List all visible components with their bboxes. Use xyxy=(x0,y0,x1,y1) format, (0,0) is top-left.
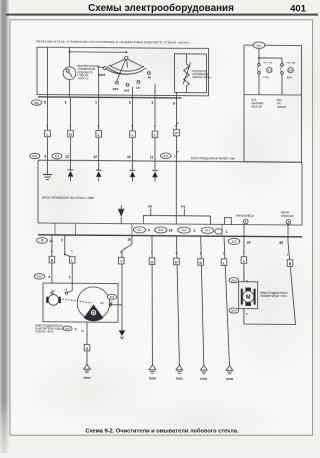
svg-text:G601: G601 xyxy=(83,376,91,380)
svg-text:В18: В18 xyxy=(33,154,38,158)
ground G1 xyxy=(149,365,157,380)
svg-text:РАБОТЫ <РЕЖ>: РАБОТЫ <РЕЖ> xyxy=(193,76,212,79)
rotary switch pivot xyxy=(125,56,128,59)
connector oval B14 xyxy=(107,294,116,299)
label: wiper motor name xyxy=(35,324,69,334)
node: junction washer feed xyxy=(69,51,71,53)
svg-text:В14: В14 xyxy=(110,295,115,299)
code box v2 xyxy=(69,257,75,264)
block connector strip xyxy=(38,223,302,225)
wire: link to rotary pivot xyxy=(70,51,127,53)
svg-text:WINDOW: WINDOW xyxy=(281,214,294,218)
svg-text:L: L xyxy=(243,259,245,263)
svg-text:В16: В16 xyxy=(164,154,169,158)
svg-text:<9ХХ-1>: <9ХХ-1> xyxy=(78,76,89,80)
wiper motor connector oval B06 xyxy=(34,274,44,279)
svg-text:БАТ: БАТ xyxy=(257,44,262,48)
label: washer motor name xyxy=(260,291,288,298)
wire w1 xyxy=(47,97,49,160)
svg-text:Схемы электрооборудования: Схемы электрооборудования xyxy=(88,3,234,14)
strip connector oval B13 pin 9 xyxy=(133,227,145,233)
wire: branch to fuse 2 xyxy=(259,57,282,59)
rotary switch ray left xyxy=(110,59,125,66)
code box v1 xyxy=(49,256,55,263)
strip divider ticks xyxy=(54,223,56,235)
AS contact stub xyxy=(110,304,122,306)
rotary switch wiper arm to OFF xyxy=(117,60,126,81)
switch box S1 (column switch) xyxy=(37,47,209,96)
wire v9 rear washer feed xyxy=(244,224,296,325)
svg-text:1: 1 xyxy=(95,101,97,105)
svg-text:G501: G501 xyxy=(200,377,208,381)
code box v9 xyxy=(287,260,293,267)
code box w3 xyxy=(96,131,102,138)
contact LO xyxy=(137,81,140,84)
svg-text:В04: В04 xyxy=(232,278,237,282)
wire w5 xyxy=(154,98,156,161)
svg-text:12: 12 xyxy=(93,155,97,159)
svg-text:В: В xyxy=(81,329,83,333)
wire v3 to wiper AS with jog xyxy=(122,235,132,330)
resistor R1 (interval regulator) xyxy=(186,54,188,64)
svg-text:LO: LO xyxy=(136,86,141,90)
svg-text:РВУ 20А: РВУ 20А xyxy=(287,62,296,65)
svg-text:20A: 20A xyxy=(287,75,292,79)
node: fuse feed junction xyxy=(258,57,260,59)
svg-text:M: M xyxy=(246,295,251,301)
wire v2 to wiper HI xyxy=(65,235,72,290)
svg-text:14: 14 xyxy=(49,239,53,243)
svg-text:MOTOR: MOTOR xyxy=(252,104,262,108)
svg-text:1: 1 xyxy=(226,230,228,234)
park cam plate xyxy=(77,287,110,320)
svg-text:В19: В19 xyxy=(232,240,237,244)
label: washer motor circuit xyxy=(252,98,264,109)
svg-text:L: L xyxy=(154,133,156,137)
svg-text:L: L xyxy=(46,133,48,137)
node: junction pivot xyxy=(125,51,127,53)
svg-text:6: 6 xyxy=(44,155,46,159)
wire: internal drop a xyxy=(98,67,100,97)
svg-text:HI: HI xyxy=(148,75,151,79)
washer motor connector oval top xyxy=(229,278,239,283)
svg-text:8: 8 xyxy=(173,101,175,105)
svg-text:G: G xyxy=(151,260,154,264)
svg-text:13: 13 xyxy=(65,155,69,159)
svg-text:MIST: MIST xyxy=(98,73,106,77)
svg-text:AS: AS xyxy=(100,301,104,305)
park cam sector xyxy=(84,304,104,321)
connector oval B13 xyxy=(52,153,62,158)
svg-text:65: 65 xyxy=(279,241,283,245)
code box v3 xyxy=(118,257,124,264)
rear window contact xyxy=(286,219,291,224)
svg-text:5: 5 xyxy=(129,101,131,105)
strip connector oval B13 pin 10 xyxy=(201,227,213,233)
svg-text:8: 8 xyxy=(246,279,248,283)
svg-text:INT: INT xyxy=(124,89,129,93)
wire v7 long to ground xyxy=(224,236,230,365)
windshield contact xyxy=(244,219,249,224)
svg-text:7: 7 xyxy=(174,155,176,159)
code box w2 xyxy=(68,130,74,137)
scan mottling xyxy=(215,215,320,385)
svg-text:В13: В13 xyxy=(55,154,60,158)
svg-text:В06: В06 xyxy=(65,327,70,331)
code box v4 xyxy=(149,258,155,265)
svg-text:4: 4 xyxy=(48,275,50,279)
wire v1 to wiper LO xyxy=(51,235,53,283)
wire: park switch to ground xyxy=(86,322,88,344)
svg-text:8: 8 xyxy=(44,100,46,104)
label: washer switch name xyxy=(78,64,99,81)
svg-text:4: 4 xyxy=(65,101,67,105)
connector oval B16 xyxy=(161,153,172,159)
contact MIST xyxy=(103,67,106,70)
svg-text:G601: G601 xyxy=(176,376,184,380)
svg-text:G202: G202 xyxy=(149,376,157,380)
wire: washer switch feed xyxy=(69,47,71,66)
wire w4 xyxy=(132,98,134,161)
code box v6 xyxy=(198,259,204,266)
code box v8 xyxy=(241,257,247,264)
svg-text:34: 34 xyxy=(247,241,251,245)
code box w6 xyxy=(174,129,180,136)
mechanical link dashed xyxy=(60,299,93,303)
svg-text:7.5A: 7.5A xyxy=(263,75,269,79)
svg-text:36: 36 xyxy=(289,68,293,72)
svg-text:8: 8 xyxy=(75,327,77,331)
svg-text:8: 8 xyxy=(41,239,43,243)
svg-text:БЛОК УПРАВЛЕНИЯ MULTIPLEX <АБВ: БЛОК УПРАВЛЕНИЯ MULTIPLEX <АБВ> xyxy=(42,196,95,200)
rotary switch wiper arm to INT xyxy=(127,60,128,68)
wiper motor box M1 xyxy=(43,283,118,322)
header rule xyxy=(6,14,318,16)
fuse box separator xyxy=(244,94,302,96)
wire: battery feed xyxy=(258,48,260,63)
wire v4 long to ground xyxy=(151,236,153,365)
connector oval below strip left xyxy=(37,238,48,244)
wire: internal drop d xyxy=(175,92,177,98)
wire gauge tick on w6 xyxy=(177,122,179,124)
svg-text:1: 1 xyxy=(69,275,71,279)
svg-text:В03: В03 xyxy=(34,101,39,105)
ground G0 (park wire) xyxy=(84,364,91,369)
svg-text:В18: В18 xyxy=(159,228,164,232)
fuse F1 7.5A xyxy=(258,63,261,66)
ground G3 xyxy=(200,365,208,380)
wire: MIST stub xyxy=(97,66,103,69)
connector oval B18 xyxy=(30,153,40,158)
wire: fuse1 out xyxy=(258,74,260,95)
strip oval 5 xyxy=(215,229,222,234)
diode D2 xyxy=(96,161,102,182)
label: interval regulator xyxy=(193,70,212,79)
oval at wiper motor bottom xyxy=(63,326,72,331)
ground G2 xyxy=(176,365,184,380)
svg-text:В13: В13 xyxy=(137,228,142,232)
wire: fuse2 out xyxy=(281,74,283,95)
svg-text:OFF: OFF xyxy=(113,87,119,91)
wiper motor symbol xyxy=(48,295,59,306)
svg-text:HI: HI xyxy=(65,288,68,292)
wire v6 long to ground xyxy=(201,236,204,365)
svg-text:L: L xyxy=(98,133,100,137)
contact HI xyxy=(148,72,151,75)
svg-text:21: 21 xyxy=(268,68,272,72)
wire color codes row 1 xyxy=(45,124,180,138)
diode D3 xyxy=(130,161,136,182)
svg-text:PS: PS xyxy=(181,205,185,209)
switch box connector bar xyxy=(38,97,182,98)
PS bus bar xyxy=(176,215,210,217)
svg-text:В04: В04 xyxy=(232,309,237,313)
svg-text:11: 11 xyxy=(150,155,154,159)
washer motor symbol xyxy=(241,289,243,305)
svg-text:РВУ 7,5А: РВУ 7,5А xyxy=(263,61,273,64)
svg-text:2: 2 xyxy=(151,101,153,105)
svg-text:2: 2 xyxy=(111,301,113,305)
svg-text:7: 7 xyxy=(246,312,248,316)
wire w3 xyxy=(98,97,100,160)
code box w4 xyxy=(130,131,136,138)
pin numbers xyxy=(44,100,175,105)
wire v8 windshield washer motor xyxy=(243,224,245,282)
wire w6 inside block xyxy=(175,161,177,224)
svg-text:7: 7 xyxy=(61,239,63,243)
wire: internal vertical left xyxy=(47,47,49,97)
battery connector oval xyxy=(253,42,265,48)
contact OFF xyxy=(116,81,119,84)
strip connector oval B19 pin 2 xyxy=(178,227,190,233)
svg-text:401: 401 xyxy=(290,4,307,15)
diode D4 xyxy=(152,161,158,182)
wire color codes row 2 xyxy=(49,250,293,266)
wire: washer switch to pin 4 xyxy=(69,80,71,98)
svg-text:СТЕКЛА <9ХХ>: СТЕКЛА <9ХХ> xyxy=(35,330,55,334)
svg-text:В13: В13 xyxy=(205,228,210,232)
rotary switch ray right xyxy=(128,59,144,67)
strip tab near windshield xyxy=(224,218,231,225)
svg-text:10: 10 xyxy=(127,238,131,242)
svg-text:WIPER: WIPER xyxy=(277,105,286,109)
ground G4 xyxy=(226,365,234,380)
connector oval below strip right, pin 34 xyxy=(228,238,240,244)
wire w2 xyxy=(70,97,72,160)
code box v7 xyxy=(221,259,227,266)
SS bus bar xyxy=(143,215,176,217)
case ground triangle under AS wire xyxy=(119,330,126,336)
fuse box (БЛОК ПРЕДОХРАНИТЕЛЕЙ) xyxy=(244,45,302,162)
svg-text:L: L xyxy=(223,261,225,265)
contact INT xyxy=(126,83,129,86)
svg-text:9: 9 xyxy=(148,228,150,232)
strip connector oval B18 pin 19 xyxy=(155,227,167,233)
svg-text:В19: В19 xyxy=(182,228,187,232)
svg-text:2: 2 xyxy=(194,229,196,233)
diode D5 near strip xyxy=(118,205,124,224)
svg-text:L: L xyxy=(131,133,133,137)
code box v5 xyxy=(174,258,180,265)
connector oval B03 xyxy=(32,100,42,105)
label: front wiper circuit xyxy=(277,98,286,109)
washer motor connector oval bottom xyxy=(229,308,239,313)
wire to HI terminal xyxy=(68,290,73,293)
code box park wire xyxy=(84,344,90,351)
ground inside block (w1) xyxy=(47,160,49,174)
wire w6 xyxy=(176,98,178,161)
svg-text:19: 19 xyxy=(169,228,173,232)
wire: internal drop c xyxy=(154,84,156,97)
interval regulator box xyxy=(175,54,207,93)
multiplex control block U1 xyxy=(38,160,302,162)
washer motor box M2 xyxy=(239,282,258,309)
svg-text:ОМЫВАТЕЛЕЙ <9ХХ>: ОМЫВАТЕЛЕЙ <9ХХ> xyxy=(260,294,288,298)
svg-text:L: L xyxy=(71,259,73,263)
wire v5 long to ground xyxy=(176,236,179,365)
svg-text:В06: В06 xyxy=(37,275,42,279)
fuse F2 20A xyxy=(281,64,284,67)
svg-text:10: 10 xyxy=(127,155,131,159)
svg-text:SS: SS xyxy=(148,204,152,208)
code box w5 xyxy=(152,131,158,138)
svg-text:G602: G602 xyxy=(226,377,234,381)
diode D1 xyxy=(68,160,74,181)
code box w1 xyxy=(45,130,51,137)
svg-text:БЛОК ПРЕДОХРАНИТЕЛЕЙ <АВ>: БЛОК ПРЕДОХРАНИТЕЛЕЙ <АВ> xyxy=(191,156,236,160)
wire: internal drop b xyxy=(132,87,134,98)
svg-text:WINDSHIELD: WINDSHIELD xyxy=(236,214,254,218)
washer switch SW1 xyxy=(63,67,76,80)
rotary switch contact arcs xyxy=(109,65,144,71)
